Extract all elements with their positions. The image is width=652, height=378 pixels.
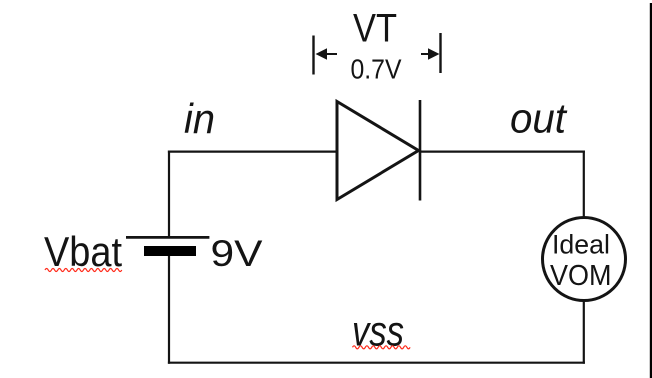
- svg-text:out: out: [510, 95, 568, 142]
- dimension arrow right: [421, 48, 440, 60]
- wire right vertical lower: [583, 300, 585, 364]
- label Vbat: [44, 228, 122, 275]
- svg-text:0.7V: 0.7V: [351, 54, 403, 85]
- svg-text:in: in: [184, 95, 215, 142]
- wire left vertical upper: [168, 151, 170, 238]
- wire bottom: [168, 362, 585, 364]
- diode: [337, 100, 420, 201]
- wire right vertical upper: [583, 151, 585, 219]
- dimension tick right: [439, 33, 441, 73]
- svg-text:VOM: VOM: [550, 260, 612, 292]
- svg-text:9V: 9V: [211, 232, 263, 274]
- net label vss: [352, 307, 410, 355]
- voltmeter Ideal VOM: [543, 218, 626, 301]
- wire top left segment: [168, 151, 337, 153]
- dimension arrow left: [316, 48, 338, 60]
- wire left vertical lower: [168, 256, 170, 364]
- battery Vbat: [126, 237, 209, 256]
- dimension tick left: [312, 36, 314, 75]
- svg-text:Ideal: Ideal: [552, 230, 610, 260]
- svg-text:VT: VT: [353, 7, 397, 51]
- wire top right segment: [420, 151, 585, 153]
